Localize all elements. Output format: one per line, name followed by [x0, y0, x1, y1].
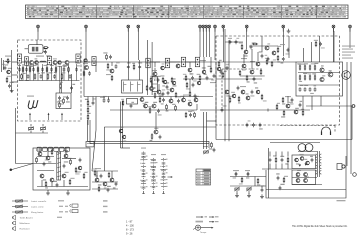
capacitor C65 — [252, 123, 255, 127]
wire — [151, 42, 153, 95]
volume potentiometer R78 — [203, 150, 208, 154]
output board dashed enclosure — [216, 36, 340, 125]
waveband switch wafer SK2 — [151, 158, 158, 191]
wire — [334, 126, 336, 134]
coil pack winding — [123, 82, 125, 92]
resistor R42 — [87, 106, 91, 113]
label — [95, 168, 101, 169]
IF transistor T51 — [157, 90, 163, 96]
capacitor C82 — [261, 185, 265, 192]
tone potentiometer R86 — [246, 187, 251, 191]
tuning gang drive arrow — [48, 113, 50, 120]
switch SK2 ground — [153, 191, 155, 194]
capacitor C45 — [107, 98, 110, 102]
AF board ground 1 — [46, 191, 50, 195]
antenna amplifier transistor T58 — [7, 68, 12, 74]
wire — [246, 44, 248, 50]
svg-text:Tonspr.: Tonspr. — [200, 231, 207, 234]
wire — [84, 61, 90, 63]
label — [63, 150, 68, 151]
capacitor C55 — [319, 42, 325, 49]
wire — [287, 96, 289, 103]
label — [106, 74, 111, 75]
wire — [15, 108, 17, 164]
capacitor C63 — [299, 101, 303, 107]
wire — [12, 81, 18, 83]
capacitor C35 — [127, 62, 131, 69]
resistor R106 — [276, 103, 280, 110]
resistor R1 — [5, 58, 9, 66]
FM RF transistor T4 — [35, 58, 39, 64]
resistor R24 — [60, 82, 63, 89]
power transistor T48 — [304, 176, 309, 182]
wire — [154, 62, 156, 67]
driver transistor T25 — [250, 70, 254, 74]
connector label — [87, 143, 93, 144]
wire — [216, 78, 262, 80]
earphone jack — [337, 164, 345, 170]
transistor T36 — [38, 152, 42, 156]
wire — [29, 64, 31, 81]
tuning gang label — [27, 96, 34, 97]
wire — [155, 112, 157, 130]
arrow legend line 2 — [209, 221, 213, 223]
wire — [67, 190, 69, 191]
svg-text:Hochtoner: Hochtoner — [20, 227, 30, 230]
capacitor C61 — [250, 90, 254, 97]
wire — [68, 64, 70, 81]
resistor R30 — [83, 69, 87, 77]
terminal C2 — [202, 25, 205, 31]
dial scale line — [26, 12, 348, 14]
resistor R34 — [150, 76, 154, 83]
capacitor C62 — [290, 98, 293, 105]
output driver transistor T27 — [320, 65, 324, 72]
resistor R77 — [209, 142, 212, 150]
wire — [47, 148, 49, 156]
capacitor C9 — [41, 67, 44, 71]
FM IF transistor T7 — [64, 61, 69, 67]
legend note 1 — [103, 200, 108, 201]
legend value — [65, 206, 68, 207]
switch SK3 ground — [163, 191, 165, 194]
AM RF transistor T8 — [85, 66, 89, 70]
dial scale line — [26, 6, 348, 8]
pilot lamp — [353, 173, 357, 177]
legend potentiometer symbol 2 — [12, 205, 28, 209]
IF transformer S3 — [165, 58, 169, 68]
legend bracket 1 — [69, 204, 72, 207]
capacitor C23 — [69, 74, 72, 78]
wire — [230, 176, 266, 178]
resistor R49 — [192, 110, 196, 118]
push-button switch key 4 — [54, 147, 59, 151]
wire — [60, 66, 62, 93]
wire — [195, 97, 197, 99]
capacitor C97 — [109, 55, 112, 59]
resistor R104 — [148, 106, 151, 113]
resistor R25 — [63, 96, 67, 104]
wire — [346, 62, 348, 166]
arrow label F — [205, 216, 208, 217]
wire — [215, 62, 217, 140]
terminal D1 — [245, 25, 248, 31]
wire — [230, 185, 266, 187]
antenna circuit ground — [10, 88, 14, 92]
capacitor C92 — [192, 80, 197, 87]
resistor R91 — [146, 85, 148, 91]
capacitor C91 — [167, 89, 170, 95]
resistor R39 — [208, 66, 212, 73]
wire — [186, 61, 195, 63]
wire — [43, 48, 48, 50]
push-button switch key 6 — [65, 147, 70, 151]
wire — [349, 31, 351, 48]
wire — [183, 78, 213, 80]
FM RF transistor T3 — [29, 61, 33, 67]
capacitor C51 — [253, 77, 258, 84]
resistor R93 — [186, 82, 190, 90]
wire — [39, 148, 41, 152]
crystal filter X1 — [32, 47, 35, 52]
resistor R43 — [87, 113, 91, 120]
waveband switch wafer SK3 — [161, 158, 168, 191]
legend loudspeaker symbol 1 — [13, 215, 16, 219]
capacitor C105 — [221, 105, 227, 112]
wire — [22, 64, 24, 81]
AF switch transistor T66 — [154, 128, 158, 134]
wire — [225, 41, 243, 43]
label — [158, 94, 163, 95]
capacitor C81 — [246, 172, 249, 179]
wire — [41, 180, 43, 187]
wire — [254, 177, 256, 187]
wire — [19, 64, 21, 81]
resistor R22 — [61, 72, 65, 79]
wire — [200, 109, 310, 111]
speaker note line 3 — [342, 52, 355, 53]
transistor T55 — [231, 92, 236, 98]
power transistor T47 — [296, 176, 300, 183]
arrow label Fis — [215, 221, 219, 222]
wire — [81, 61, 216, 63]
transistor T38 — [64, 151, 68, 158]
wire — [249, 45, 278, 47]
wire — [16, 132, 49, 134]
resistor R14 — [65, 65, 69, 73]
board code TL505 — [337, 200, 346, 201]
winding label — [137, 84, 140, 85]
speaker note line 4 — [342, 55, 351, 56]
tuning gang drive arrow — [29, 113, 31, 120]
ground — [235, 193, 239, 197]
resistor R6 — [29, 65, 33, 72]
FM discriminator transformer S1 — [76, 54, 80, 63]
resistor R84 — [239, 177, 243, 185]
wire — [224, 29, 226, 141]
resistor R74 — [93, 168, 97, 176]
tone potentiometer R85 — [234, 187, 239, 191]
wire — [292, 177, 317, 179]
output driver transistor T29 — [328, 70, 333, 77]
wire — [30, 131, 32, 134]
IF transistor T11 — [161, 63, 165, 69]
aerial terminal A1 — [37, 25, 40, 31]
legend potentiometer symbol 3 — [12, 210, 28, 214]
transistor T33 — [246, 93, 250, 100]
wire — [139, 60, 141, 80]
push-button switch key 5 — [59, 147, 64, 151]
wire — [240, 75, 262, 77]
phase splitter transistor T63 — [265, 43, 270, 50]
AF transistor T18 — [180, 96, 185, 102]
wire — [282, 31, 284, 40]
wire — [196, 104, 198, 110]
label — [152, 70, 157, 71]
legend block — [196, 221, 204, 223]
terminal C5 — [214, 25, 217, 31]
wire — [103, 97, 105, 100]
aerial terminal A2 — [85, 25, 88, 31]
wire — [268, 148, 270, 198]
legend value — [59, 211, 63, 212]
waveband switch wafer SK1 — [141, 152, 148, 192]
wire — [92, 97, 94, 102]
svg-text:9 - 26: 9 - 26 — [126, 232, 133, 235]
wire — [34, 61, 47, 63]
transistor T57 — [77, 166, 82, 172]
terminal C1 — [199, 25, 202, 31]
legend loudspeaker symbol 3 — [13, 226, 16, 230]
wire — [320, 96, 322, 106]
svg-text:Lautst. vorne: Lautst. vorne — [31, 205, 44, 208]
IF transformer S5 — [195, 57, 199, 67]
wire — [288, 36, 290, 58]
wire — [121, 147, 131, 149]
wire — [222, 31, 224, 62]
terminal D2 — [282, 25, 285, 31]
wire — [281, 152, 283, 157]
wire — [84, 96, 213, 98]
resistor R12 — [55, 66, 57, 72]
capacitor C71 — [100, 174, 103, 178]
connector block — [86, 142, 94, 147]
FM IF transformer S1a — [47, 56, 51, 65]
switch SK1 ground — [143, 191, 145, 194]
wire — [12, 74, 18, 76]
wire — [303, 48, 305, 62]
terminal C6 — [222, 25, 225, 31]
terminal D3 — [332, 25, 335, 31]
wire — [248, 191, 250, 194]
wire — [222, 68, 262, 70]
wire — [37, 156, 54, 158]
wire — [302, 96, 304, 110]
label — [36, 150, 42, 151]
wire — [203, 112, 205, 149]
dial scale tick marks — [27, 5, 346, 18]
wire — [87, 119, 89, 125]
wire — [33, 64, 35, 81]
wire — [137, 31, 139, 60]
transistor T32 — [241, 90, 245, 94]
resistor R68 — [50, 148, 54, 155]
wire — [57, 61, 65, 63]
resistor R55 — [265, 58, 269, 65]
wire — [269, 164, 271, 170]
label — [280, 44, 285, 45]
AF preamp transistor T17 — [169, 99, 173, 103]
power output transistor T30 — [342, 71, 351, 80]
capacitor C93 — [194, 94, 197, 98]
resistor R50 — [239, 42, 243, 50]
label — [285, 96, 291, 97]
IF transistor T52 — [170, 85, 176, 92]
resistor R56 — [277, 46, 281, 53]
wire — [120, 102, 122, 149]
wire — [111, 171, 113, 178]
capacitor C67 — [43, 159, 48, 166]
label — [183, 95, 189, 96]
wire — [154, 68, 156, 72]
AGC filter block — [127, 99, 138, 105]
coil L3 — [40, 60, 45, 63]
wire — [25, 48, 29, 50]
speaker note line 1 — [342, 46, 355, 47]
trimmer capacitor C30 — [28, 126, 33, 130]
IF transistor T10 — [153, 72, 157, 78]
wire — [151, 80, 153, 87]
capacitor C3 — [18, 65, 22, 72]
wire — [243, 54, 245, 63]
dial scale line — [26, 8, 348, 10]
svg-text:Tonbl. Anschl.: Tonbl. Anschl. — [20, 216, 34, 219]
IF transformer S2 — [146, 58, 150, 68]
driver transistor T26 — [256, 62, 260, 66]
wire — [12, 61, 18, 63]
capacitor C58 — [309, 87, 314, 94]
electrolytic capacitor C77 — [280, 156, 284, 162]
mains transformer T601 — [298, 144, 313, 152]
transistor T43 — [103, 182, 107, 188]
wire — [89, 120, 91, 144]
legend switch box 2 — [72, 210, 78, 213]
label — [200, 60, 206, 61]
AF transistor T19 — [188, 100, 192, 106]
wire — [88, 140, 210, 142]
resistor R20 — [47, 72, 52, 79]
wire — [216, 139, 352, 141]
wire — [261, 186, 263, 188]
resistor R90 — [154, 92, 156, 98]
antenna label — [5, 56, 11, 57]
wire — [251, 49, 253, 69]
resistor R101 — [222, 71, 226, 78]
wire — [189, 62, 191, 67]
resistor R57 — [314, 40, 318, 47]
wire — [170, 97, 172, 100]
wire — [104, 126, 216, 128]
legend note 2 — [103, 206, 108, 207]
wire — [95, 62, 97, 72]
wire — [207, 120, 217, 122]
wire — [158, 84, 160, 90]
wire — [311, 96, 313, 110]
capacitor C42 — [219, 70, 223, 77]
power transistor T45 — [296, 170, 301, 177]
capacitor C56 — [299, 85, 304, 92]
label — [210, 82, 216, 83]
wire — [37, 186, 88, 188]
wire — [37, 64, 39, 81]
wire — [208, 141, 210, 148]
transistor T41 — [62, 172, 69, 178]
audio output module board — [296, 62, 343, 96]
FM tuning gang plates — [28, 100, 38, 109]
wire — [208, 31, 210, 57]
AFC diode sub-enclosure — [56, 93, 71, 109]
resistor R99 — [103, 52, 107, 60]
wire — [270, 142, 320, 144]
resistor R97 — [261, 94, 266, 102]
wire — [111, 62, 113, 66]
winding label — [123, 84, 126, 85]
wire — [127, 31, 129, 62]
resistor R163 — [312, 73, 316, 80]
wire — [96, 171, 98, 178]
wire — [36, 40, 38, 45]
wire — [189, 79, 191, 92]
legend switch box 1 — [72, 204, 78, 207]
label — [240, 86, 246, 87]
wire — [122, 102, 124, 149]
wire — [298, 72, 340, 74]
wire — [37, 31, 39, 40]
legend potentiometer symbol 1 — [12, 199, 28, 203]
terminal B2 — [137, 25, 140, 31]
wire — [59, 66, 61, 93]
svg-text:Mitteltoner: Mitteltoner — [20, 222, 30, 225]
alignment data table — [196, 169, 211, 185]
capacitor C37 — [157, 76, 161, 82]
capacitor C80 — [233, 172, 238, 179]
terminal C4 — [208, 25, 211, 31]
wire — [16, 163, 57, 165]
wire — [235, 172, 237, 177]
capacitor C41 — [211, 74, 215, 81]
capacitor C5 — [25, 65, 30, 71]
wire — [83, 62, 85, 97]
label — [245, 170, 250, 171]
output transformer S7 — [316, 151, 322, 177]
arrow legend line 1 — [196, 216, 202, 218]
resistor R41 — [85, 99, 89, 106]
AF transistor T20 — [194, 96, 199, 102]
wire — [280, 125, 335, 127]
capacitor C90 — [162, 89, 166, 96]
capacitor C101 — [276, 173, 279, 180]
resistor R63 — [238, 96, 241, 104]
capacitor C25 — [57, 96, 61, 103]
label — [250, 61, 255, 62]
resistor R71 — [69, 178, 74, 185]
wire — [150, 61, 160, 63]
capacitor C52 — [259, 51, 264, 58]
wire — [311, 42, 313, 62]
wire — [95, 97, 97, 131]
resistor R25b — [58, 100, 62, 108]
detector diode stage transistor T14 — [202, 67, 206, 73]
